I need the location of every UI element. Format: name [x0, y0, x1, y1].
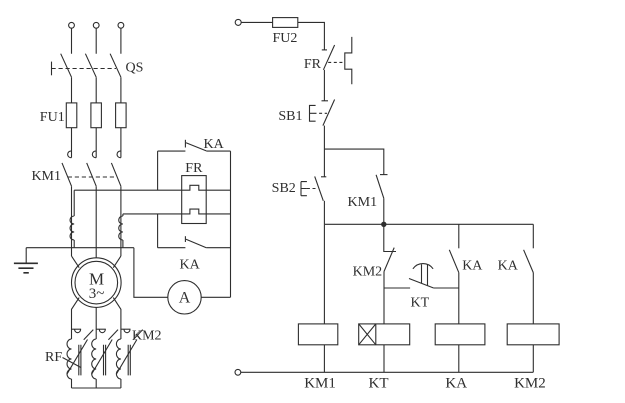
- svg-text:KM1: KM1: [304, 376, 336, 392]
- svg-text:KM2: KM2: [353, 265, 383, 280]
- svg-text:RF: RF: [45, 350, 62, 365]
- svg-text:KA: KA: [204, 137, 225, 152]
- svg-text:KA: KA: [180, 258, 201, 273]
- svg-text:SB2: SB2: [272, 181, 296, 196]
- svg-text:FU1: FU1: [40, 110, 65, 125]
- svg-text:KA: KA: [498, 259, 519, 274]
- svg-text:KT: KT: [369, 376, 389, 392]
- svg-text:KA: KA: [445, 376, 467, 392]
- svg-text:A: A: [179, 290, 191, 307]
- svg-text:KT: KT: [411, 296, 430, 311]
- svg-text:KM1: KM1: [348, 195, 378, 210]
- svg-text:FR: FR: [304, 57, 322, 72]
- svg-text:QS: QS: [126, 61, 144, 76]
- svg-text:KM2: KM2: [514, 376, 546, 392]
- svg-text:KM2: KM2: [132, 329, 162, 344]
- svg-text:KM1: KM1: [31, 169, 61, 184]
- svg-text:FR: FR: [185, 161, 203, 176]
- svg-text:KA: KA: [462, 259, 483, 274]
- svg-text:SB1: SB1: [278, 109, 302, 124]
- svg-text:3~: 3~: [89, 286, 105, 302]
- svg-text:FU2: FU2: [273, 31, 298, 46]
